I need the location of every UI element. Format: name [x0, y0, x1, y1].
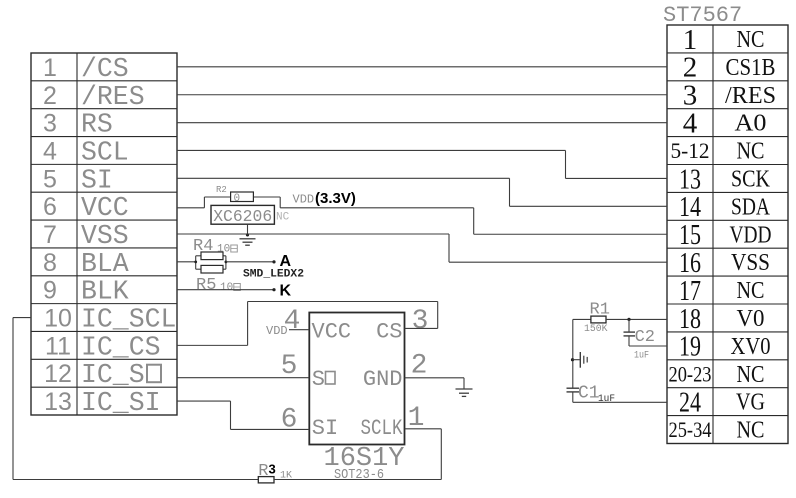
svg-text:8: 8: [43, 249, 57, 277]
svg-text:3: 3: [269, 462, 276, 477]
svg-text:10: 10: [217, 244, 230, 256]
svg-text:CS: CS: [376, 320, 402, 345]
svg-text:1: 1: [408, 403, 425, 434]
svg-text:2: 2: [411, 351, 428, 382]
svg-text:5: 5: [43, 165, 57, 193]
svg-text:4: 4: [43, 137, 57, 165]
svg-text:NC: NC: [737, 418, 765, 444]
svg-text:GND: GND: [363, 367, 403, 392]
svg-text:150K: 150K: [584, 324, 608, 335]
svg-text:9: 9: [43, 277, 57, 305]
svg-text:R1: R1: [590, 301, 610, 320]
svg-text:19: 19: [679, 331, 701, 363]
svg-text:IC_SI: IC_SI: [81, 388, 161, 418]
svg-text:VDD: VDD: [730, 222, 772, 248]
svg-text:CS1B: CS1B: [726, 55, 776, 81]
svg-text:NC: NC: [276, 212, 290, 224]
svg-text:NC: NC: [737, 278, 765, 304]
svg-text:VDD: VDD: [293, 193, 315, 207]
svg-text:SDA: SDA: [731, 194, 771, 220]
svg-text:NC: NC: [737, 362, 765, 388]
svg-text:SOT23-6: SOT23-6: [334, 467, 384, 483]
svg-text:R4: R4: [193, 237, 213, 256]
svg-text:R2: R2: [216, 185, 227, 195]
svg-text:VCC: VCC: [312, 320, 352, 345]
svg-text:4: 4: [683, 107, 698, 139]
svg-text:1uF: 1uF: [634, 351, 649, 362]
svg-text:C2: C2: [635, 328, 655, 347]
svg-text:1K: 1K: [280, 471, 292, 482]
svg-text:5-12: 5-12: [671, 138, 710, 163]
svg-text:NC: NC: [737, 27, 765, 53]
svg-text:NC: NC: [737, 139, 765, 165]
svg-text:/RES: /RES: [725, 83, 776, 109]
svg-text:XV0: XV0: [731, 334, 771, 360]
svg-text:XC6206: XC6206: [213, 208, 272, 227]
svg-text:A0: A0: [735, 111, 767, 137]
svg-text:6: 6: [281, 405, 298, 436]
svg-text:12: 12: [44, 360, 72, 388]
svg-text:1: 1: [43, 54, 57, 82]
svg-text:VSS: VSS: [81, 221, 129, 251]
svg-text:S: S: [312, 367, 325, 392]
svg-text:/CS: /CS: [81, 54, 129, 84]
svg-text:IC_S: IC_S: [81, 360, 145, 390]
svg-text:C1: C1: [578, 384, 600, 404]
svg-text:/RES: /RES: [81, 82, 145, 112]
svg-text:IC_CS: IC_CS: [81, 332, 161, 362]
svg-text:10: 10: [220, 282, 233, 294]
svg-text:A: A: [280, 253, 292, 270]
svg-text:7: 7: [43, 221, 57, 249]
svg-text:ST7567: ST7567: [663, 3, 742, 28]
svg-text:R: R: [258, 462, 268, 481]
svg-text:IC_SCL: IC_SCL: [81, 305, 176, 335]
svg-text:SCL: SCL: [81, 137, 129, 167]
svg-text:BLA: BLA: [81, 249, 129, 279]
svg-text:K: K: [280, 283, 292, 300]
svg-text:VSS: VSS: [731, 250, 770, 276]
svg-text:VDD: VDD: [266, 324, 288, 338]
svg-text:BLK: BLK: [81, 277, 129, 307]
svg-text:3: 3: [43, 110, 57, 138]
svg-text:R5: R5: [196, 276, 216, 295]
svg-text:3: 3: [412, 306, 429, 337]
svg-text:SI: SI: [312, 416, 338, 441]
svg-text:SI: SI: [81, 165, 113, 195]
svg-text:1uF: 1uF: [598, 394, 615, 405]
svg-text:VG: VG: [736, 390, 765, 416]
svg-text:SCK: SCK: [731, 166, 771, 192]
svg-text:0: 0: [234, 193, 241, 205]
svg-text:SCLK: SCLK: [361, 416, 404, 441]
svg-text:10: 10: [44, 305, 72, 333]
svg-text:VCC: VCC: [81, 193, 129, 223]
svg-text:13: 13: [44, 388, 72, 416]
svg-text:24: 24: [679, 386, 701, 418]
svg-text:2: 2: [43, 82, 57, 110]
svg-text:RS: RS: [81, 110, 113, 140]
svg-text:20-23: 20-23: [669, 361, 712, 386]
svg-text:6: 6: [43, 193, 57, 221]
svg-text:11: 11: [45, 332, 71, 360]
svg-text:SMD_LEDX2: SMD_LEDX2: [243, 269, 304, 281]
svg-text:V0: V0: [737, 306, 765, 332]
svg-text:(3.3V): (3.3V): [315, 190, 356, 207]
svg-text:25-34: 25-34: [669, 417, 712, 442]
